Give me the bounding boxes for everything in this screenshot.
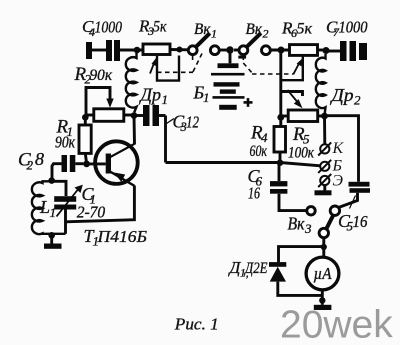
label R6 5k — [281, 19, 313, 41]
capacitor C1 (variable) — [54, 196, 76, 234]
meter uA — [306, 257, 339, 305]
label R2 90k — [74, 64, 113, 87]
svg-text:К: К — [332, 140, 345, 157]
wire emitter down and left — [66, 186, 135, 222]
resistor R1 — [79, 125, 91, 161]
label C7 1000 — [326, 18, 368, 40]
wire Vk3 to meter node — [322, 238, 325, 258]
node O (meter bottom junction) — [319, 297, 325, 303]
wire base lead — [87, 162, 106, 165]
label C1 2-70 — [77, 184, 106, 222]
svg-text:16: 16 — [353, 212, 369, 231]
arrow of C1 — [57, 185, 83, 217]
label B1 — [193, 83, 210, 106]
terminal B — [318, 160, 331, 173]
terminal bar below meter — [314, 305, 332, 310]
svg-text:90к: 90к — [55, 133, 75, 152]
svg-text:8: 8 — [35, 149, 44, 169]
svg-text:L: L — [39, 197, 50, 217]
label Vk2 — [246, 21, 269, 41]
svg-text:5к: 5к — [153, 19, 167, 36]
svg-text:1: 1 — [162, 92, 169, 107]
wire base rail — [166, 163, 321, 166]
svg-text:Др: Др — [138, 85, 161, 105]
capacitor C7 — [329, 41, 367, 61]
capacitor C6 — [270, 163, 287, 194]
node J (L1 bottom node) — [48, 232, 55, 239]
resistor R4 — [274, 118, 286, 163]
label Vk1 — [194, 21, 217, 41]
svg-text:Рис. 1: Рис. 1 — [174, 315, 219, 334]
label Dr2 — [329, 85, 361, 108]
svg-text:3: 3 — [304, 221, 312, 236]
wire R6 to C7 node — [318, 49, 324, 52]
switch Vk3 — [307, 206, 340, 238]
switch Vk2 — [234, 33, 290, 54]
ground — [44, 235, 62, 249]
wire node F to R1 — [84, 117, 87, 125]
minus sign — [238, 56, 246, 59]
node A (C4/R3/Dr1 junction) — [134, 47, 141, 54]
arrow loop of R5 — [281, 90, 303, 108]
label R3 5k — [138, 17, 167, 39]
label R4 60k — [250, 123, 269, 161]
diode D1 D2E — [269, 262, 322, 295]
wire top of tank to C1 branch — [52, 181, 66, 196]
node N (meter top junction) — [321, 244, 327, 250]
capacitor C5 — [339, 182, 371, 209]
inductor Dr2 — [316, 54, 326, 113]
wire C3 down to base rail — [164, 116, 167, 163]
svg-text:2-70: 2-70 — [77, 203, 106, 222]
svg-text:Вк: Вк — [246, 21, 263, 38]
svg-text:1: 1 — [211, 27, 217, 41]
node E (C7/Dr2 junction) — [323, 47, 330, 54]
label T1 P416B — [84, 226, 148, 249]
svg-text:5к: 5к — [297, 21, 313, 38]
label R1 90k — [55, 117, 75, 152]
svg-text:Вк: Вк — [288, 214, 306, 234]
inductor Dr1 — [126, 53, 137, 113]
node F (R2/R1 junction) — [82, 114, 89, 121]
resistor R5 — [281, 110, 325, 122]
wire node L to C5 — [325, 116, 359, 182]
svg-text:16: 16 — [248, 184, 261, 203]
label Vk3 — [288, 214, 313, 237]
svg-text:µА: µА — [314, 264, 333, 283]
svg-text:90к: 90к — [90, 67, 113, 84]
svg-text:60к: 60к — [250, 143, 268, 160]
capacitor C4 — [86, 40, 143, 61]
node C (battery junction) — [226, 46, 233, 53]
wire battery drop — [229, 50, 232, 63]
node K (R5 left junction) — [277, 114, 284, 121]
terminal K — [318, 142, 331, 155]
label C3 12 with leader — [167, 119, 175, 124]
svg-text:П416Б: П416Б — [96, 227, 147, 246]
node G (Dr1/R2/C3/collector junction) — [131, 112, 138, 119]
svg-text:Вк: Вк — [194, 21, 211, 38]
svg-text:Д2Е: Д2Е — [243, 260, 267, 277]
switch Vk1 — [188, 33, 226, 54]
capacitor C3 — [134, 105, 166, 126]
linkage frame of R3/Vk1 — [157, 56, 179, 81]
node I (L1 top node) — [48, 177, 55, 184]
node B (R3/Vk1 junction) — [177, 47, 183, 53]
svg-text:2: 2 — [27, 158, 34, 173]
svg-text:2: 2 — [263, 27, 269, 41]
arrow of R6 wiper — [293, 58, 302, 74]
resistor R3 — [143, 44, 189, 55]
node M (base rail / R4 / C6 junction) — [277, 159, 284, 166]
svg-text:12: 12 — [186, 113, 199, 132]
label L1 — [39, 197, 56, 220]
svg-text:Др: Др — [329, 85, 353, 105]
label D1 D2E — [228, 258, 268, 280]
svg-text:20wek: 20wek — [280, 304, 393, 345]
arrow loop of R2 — [86, 88, 114, 116]
resistor R2 — [86, 109, 132, 122]
wire C6 to Vk3 left — [279, 194, 307, 211]
label Dr1 — [138, 85, 168, 108]
node L (R5 right / Dr2 junction) — [321, 113, 328, 120]
resistor R6 — [290, 45, 318, 56]
svg-text:2: 2 — [354, 93, 361, 108]
arrow of R3 wiper — [150, 58, 157, 74]
label C2 8 — [18, 149, 44, 173]
transistor T1 — [95, 141, 138, 186]
label C4 1000 — [82, 17, 123, 39]
svg-text:Э: Э — [333, 173, 344, 190]
svg-text:1: 1 — [203, 90, 210, 105]
wire node L to K terminal — [323, 116, 326, 144]
coil L1 — [32, 181, 66, 234]
wire to diode branch — [279, 247, 324, 263]
dashed mechanical link R3-Vk1 — [157, 54, 202, 73]
svg-text:100к: 100к — [288, 145, 315, 162]
capacitor C2 — [52, 155, 83, 180]
label R5 100k — [288, 124, 315, 162]
wire collector to node G — [133, 116, 136, 145]
svg-text:1000: 1000 — [339, 18, 369, 37]
terminal E — [318, 174, 331, 187]
terminal bar below E — [315, 185, 332, 195]
dashed mechanical link Vk2-R6 — [243, 56, 293, 75]
label C5 16 — [338, 211, 368, 234]
linkage frame of R6/Vk2 — [281, 56, 303, 80]
plus sign — [244, 98, 253, 107]
label C6 16 — [248, 166, 263, 203]
battery B1 — [211, 63, 245, 110]
svg-text:1000: 1000 — [95, 18, 123, 37]
node H (base node) — [83, 161, 90, 168]
node D (R6 left junction) — [278, 47, 285, 54]
wire node D down to R5 left — [279, 50, 282, 118]
